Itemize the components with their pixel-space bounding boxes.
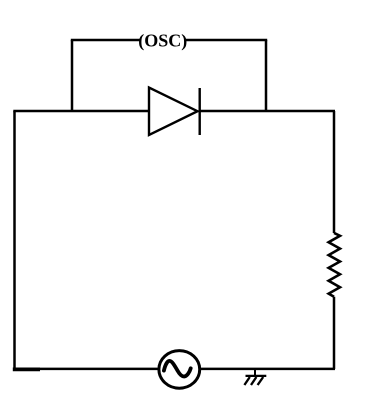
svg-text:(OSC): (OSC) bbox=[138, 30, 187, 51]
